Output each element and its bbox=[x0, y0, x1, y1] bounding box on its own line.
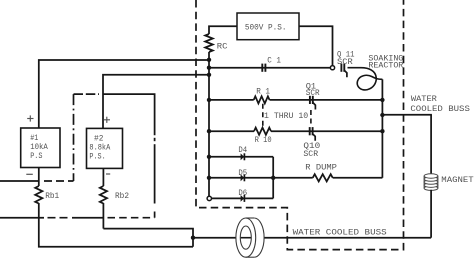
diode D6 bbox=[241, 195, 245, 202]
wire: Rb2 down, right, down to junction bbox=[103, 203, 193, 247]
svg-text:Rb2: Rb2 bbox=[115, 191, 129, 201]
svg-text:WATER: WATER bbox=[411, 94, 437, 104]
wire: left rail (RC bottom to D6 terminal) bbox=[208, 52, 210, 196]
SCR Q1 bbox=[309, 96, 311, 104]
wire: water cooled buss (top right) bbox=[382, 114, 432, 116]
centerline dot on branch vertical bbox=[154, 138, 156, 141]
svg-text:SCR: SCR bbox=[306, 88, 320, 98]
diode D4 bbox=[241, 153, 245, 160]
wire: Rb1 down and across bottom bbox=[39, 203, 193, 247]
junction dot: left rail / supply #1 plus bbox=[207, 58, 211, 62]
wire: R DUMP to right rail bbox=[333, 177, 383, 179]
SCR Q11 bbox=[340, 64, 342, 72]
power supply #2 box bbox=[87, 128, 123, 168]
svg-text:1 THRU 10: 1 THRU 10 bbox=[264, 111, 308, 121]
wire: water cooled buss (bottom) bbox=[193, 237, 431, 239]
wire: 500V P.S. right lead bbox=[299, 26, 333, 65]
wire: #2 minus lead bbox=[102, 168, 104, 186]
junction dot: diode bank to R DUMP bbox=[271, 176, 275, 180]
dashed repetition line below Q1 bbox=[310, 110, 312, 127]
wire: magnet to bottom buss bbox=[430, 190, 432, 238]
dashed enclosure: supply #2 left edge bbox=[73, 94, 75, 181]
svg-text:10kA: 10kA bbox=[30, 143, 48, 152]
wire: buss down to magnet bbox=[430, 115, 432, 174]
junction dot: bottom buss / Rb return bbox=[191, 236, 195, 240]
wire: external stub at y=218 (right part to Rb2) bbox=[72, 217, 103, 219]
dashed enclosure: bottom edge segment left of Rb2 bbox=[48, 217, 70, 219]
wire: diode bank right vertical bbox=[272, 157, 274, 199]
soaking reactor coil bbox=[348, 68, 383, 90]
wire: D6 row bbox=[211, 197, 273, 199]
svg-text:D4: D4 bbox=[238, 145, 247, 155]
svg-text:8.8kA: 8.8kA bbox=[89, 143, 110, 152]
svg-text:Rb1: Rb1 bbox=[45, 191, 59, 201]
dashed repetition line below R1 bbox=[262, 104, 264, 126]
wire: solid branch from #2 plus lead bbox=[103, 94, 155, 135]
wire: R10/Q10 row bbox=[209, 130, 254, 132]
resistor Rb1 bbox=[35, 186, 42, 204]
magnet coil bbox=[424, 175, 438, 189]
minus sign supply #2 bbox=[106, 173, 110, 175]
minus sign supply #1 bbox=[26, 173, 33, 175]
dashed enclosure: tick joining solid branch to bottom edge bbox=[154, 212, 156, 218]
open terminal circle at D6 row bbox=[207, 196, 211, 200]
svg-text:SCR: SCR bbox=[337, 57, 353, 67]
junction dot: right rail / water cooled buss bbox=[380, 113, 384, 117]
svg-text:SCR: SCR bbox=[303, 149, 318, 159]
wire: external stub at y=218 (left part) bbox=[0, 217, 44, 219]
svg-text:P.S.: P.S. bbox=[89, 152, 105, 161]
svg-text:RC: RC bbox=[217, 42, 228, 52]
dashed enclosure: bottom-left jog at y=181 bbox=[44, 180, 74, 182]
wire: C1 row bbox=[209, 67, 333, 69]
junction dot: right rail / reactor & R1 bbox=[380, 98, 384, 102]
junction dot: right rail / R10 row bbox=[380, 129, 384, 133]
svg-text:R 10: R 10 bbox=[255, 135, 272, 145]
svg-text:P.S: P.S bbox=[30, 152, 42, 161]
svg-text:REACTOR: REACTOR bbox=[368, 61, 403, 71]
resistor R 10 bbox=[254, 128, 271, 135]
svg-text:R 1: R 1 bbox=[256, 87, 270, 97]
svg-text:D6: D6 bbox=[238, 188, 247, 198]
dashed enclosure: supply #2 top edge bbox=[74, 93, 100, 95]
power supply #1 box bbox=[21, 128, 60, 168]
wire: #1 minus lead bbox=[38, 168, 40, 187]
svg-text:COOLED BUSS: COOLED BUSS bbox=[410, 104, 470, 114]
plus sign supply #1 bbox=[27, 118, 33, 120]
junction dot: left rail / D4 row bbox=[207, 155, 211, 159]
capacitor C1 bbox=[261, 64, 263, 72]
dashed enclosure: SCR switch cabinet boundary bbox=[196, 0, 404, 250]
wire: external stub at y=181 bbox=[0, 180, 39, 182]
resistor R DUMP bbox=[313, 174, 333, 181]
wire: 500V P.S. left lead to left rail bbox=[209, 26, 237, 34]
junction dot: left rail / R1 row bbox=[207, 98, 211, 102]
diode D5 bbox=[241, 174, 245, 181]
svg-text:C 1: C 1 bbox=[267, 55, 281, 65]
resistor Rb2 bbox=[100, 186, 107, 204]
wire: D4 row bbox=[209, 156, 273, 158]
wire: supply #1 plus lead to rail bbox=[39, 60, 209, 128]
svg-text:D5: D5 bbox=[238, 168, 247, 178]
svg-text:500V P.S.: 500V P.S. bbox=[245, 22, 287, 32]
svg-text:R DUMP: R DUMP bbox=[305, 163, 337, 173]
svg-text:#2: #2 bbox=[94, 134, 104, 143]
svg-text:WATER COOLED BUSS: WATER COOLED BUSS bbox=[293, 227, 387, 237]
branch vertical lower solid run bbox=[154, 144, 156, 203]
SCR Q10 bbox=[309, 127, 311, 135]
500V power supply box bbox=[237, 13, 299, 40]
resistor RC bbox=[205, 34, 213, 52]
junction dot: left rail / D5 row bbox=[207, 176, 211, 180]
plus sign supply #2 bbox=[104, 119, 110, 121]
svg-text:#1: #1 bbox=[30, 134, 38, 143]
dashed enclosure: bottom edge segment right of Rb2 bbox=[108, 217, 155, 219]
junction dot: left rail / supply #2 plus bbox=[207, 73, 211, 77]
wire: R1/Q1 row bbox=[209, 99, 254, 101]
wire: supply #2 plus lead to rail bbox=[103, 75, 209, 129]
wire: D5 / R DUMP row bbox=[209, 177, 313, 179]
resistor R 1 bbox=[254, 96, 270, 103]
wire: right rail bbox=[381, 79, 383, 178]
svg-text:MAGNET: MAGNET bbox=[441, 175, 473, 185]
junction dot: left rail / C1 row bbox=[207, 66, 211, 70]
toroid core on bottom buss bbox=[244, 218, 264, 257]
node junction ring at 500V drop / C1 row bbox=[330, 66, 334, 70]
junction dot: left rail / R10 row bbox=[207, 129, 211, 133]
